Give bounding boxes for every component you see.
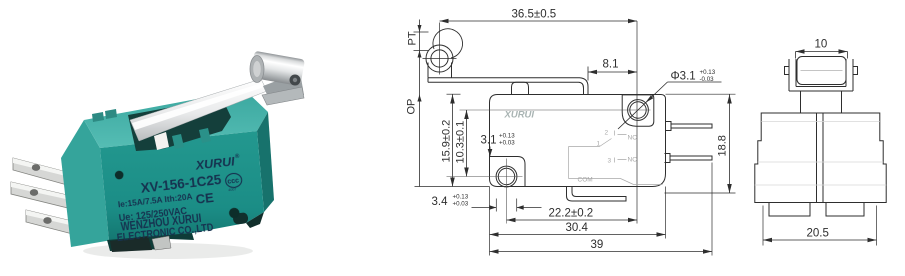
ccc logo [225, 173, 243, 193]
yoke bottom [789, 87, 853, 92]
lower-left boss [490, 157, 526, 187]
body top face [84, 90, 268, 148]
svg-text:8.1: 8.1 [603, 59, 619, 71]
printed text on front face [109, 153, 248, 244]
svg-text:+0.13: +0.13 [499, 133, 515, 140]
lever sides [801, 91, 842, 113]
svg-text:39: 39 [591, 239, 604, 251]
bottom bent terminal [567, 187, 627, 202]
roller front [797, 57, 846, 85]
svg-text:+0.13: +0.13 [700, 69, 716, 76]
roller inner [431, 50, 448, 67]
plunger [512, 82, 529, 94]
bottom extension lines [415, 163, 713, 256]
upper-right boss [622, 95, 654, 126]
rear edge bump 1 [92, 112, 104, 122]
terminal stub 1 [666, 122, 672, 131]
label 3.1 tol with down arrow [481, 133, 516, 157]
svg-text:36.5±0.5: 36.5±0.5 [512, 9, 557, 21]
lever arm (metal strip) [130, 79, 267, 141]
svg-text:-0.03: -0.03 [700, 76, 715, 83]
switch body outline [490, 95, 666, 187]
svg-text:+0.03: +0.03 [499, 140, 515, 147]
bottom terminal left [769, 203, 810, 217]
molded dot upper-left [114, 170, 123, 179]
svg-text:+0.03: +0.03 [453, 201, 469, 208]
svg-text:3.1: 3.1 [481, 135, 497, 147]
lower hole inner [498, 168, 514, 184]
lower hole v center line [506, 159, 508, 224]
top recess (dark opening) [128, 98, 231, 151]
dimension 10 [796, 39, 848, 59]
yoke left arm [789, 59, 796, 91]
dimension 20.5 [763, 206, 877, 246]
dimension 36.5±0.5 [440, 9, 638, 24]
dimension 15.9±0.2 [441, 95, 455, 187]
svg-text:ccc: ccc [227, 178, 239, 186]
hidden lines [755, 122, 886, 186]
shadow under body [83, 243, 253, 259]
svg-text:XURUI: XURUI [504, 110, 535, 121]
axle pin right [853, 67, 858, 75]
terminal blade 1 [671, 124, 712, 128]
body front face [100, 131, 264, 241]
svg-text:OP: OP [406, 99, 418, 115]
recess rib 1 [172, 134, 184, 149]
body outline with side tabs [755, 113, 886, 203]
svg-text:1: 1 [597, 141, 601, 148]
terminal stub 2 [665, 154, 671, 163]
axle pin left [785, 67, 790, 75]
roller center line [801, 70, 843, 72]
svg-text:NO: NO [628, 157, 638, 164]
terminal 2 (middle spade) [11, 182, 84, 212]
svg-text:10.3±0.1: 10.3±0.1 [455, 121, 467, 164]
bracket screw [290, 75, 301, 86]
bottom dark band [107, 233, 194, 251]
OP label and line [406, 64, 422, 187]
upper hole inner [630, 102, 646, 118]
right extension of top line [666, 93, 736, 95]
yoke right arm [846, 59, 853, 91]
roller bracket [428, 63, 452, 78]
svg-text:2: 2 [605, 130, 609, 137]
lever strip [428, 78, 588, 95]
terminal 3 (bottom spade) [26, 210, 92, 239]
PT dimension [407, 20, 429, 64]
OP extension at body top [447, 93, 461, 95]
dimension 39 [490, 239, 713, 254]
terminal blade 2 [670, 156, 712, 160]
roller bracket [263, 72, 304, 101]
dimension 8.1 [588, 59, 637, 81]
svg-text:30.4: 30.4 [566, 222, 589, 234]
svg-text:PT: PT [407, 31, 419, 45]
molded dot lower-right [229, 207, 240, 218]
free-position arc [433, 29, 463, 58]
terminal 1 (top spade) [13, 158, 78, 188]
long extension line through upper hole [636, 21, 638, 224]
svg-text:Φ3.1: Φ3.1 [671, 71, 696, 83]
bottom left dark blob [110, 236, 152, 252]
body right face [257, 112, 274, 212]
roller outer [426, 45, 453, 72]
bottom right corner dark [246, 212, 264, 228]
svg-text:10: 10 [815, 39, 828, 51]
dimension 10.3±0.1 [455, 110, 469, 177]
lower hole h center line [447, 176, 523, 178]
roller cylinder [250, 51, 305, 86]
svg-text:22.2±0.2: 22.2±0.2 [549, 208, 594, 220]
svg-text:20.5: 20.5 [807, 228, 829, 240]
internal mechanism (light) [569, 130, 663, 185]
svg-text:CE: CE [195, 190, 215, 207]
recess rib 2 [199, 128, 211, 143]
dimension 22.2±0.2 [507, 208, 638, 223]
upper hole outer [628, 100, 649, 121]
svg-text:3.4: 3.4 [432, 196, 449, 208]
svg-text:15.9±0.2: 15.9±0.2 [441, 120, 453, 163]
dimension 18.8 [665, 95, 736, 194]
lower hole outer [496, 166, 517, 187]
bottom metal foot [152, 236, 171, 250]
svg-text:+0.13: +0.13 [453, 194, 469, 201]
label dia 3.1 with leader [618, 69, 722, 129]
svg-text:NC: NC [628, 135, 638, 142]
body left face [61, 120, 109, 247]
dimension 30.4 [490, 222, 666, 237]
center seam lines [817, 113, 824, 203]
svg-text:COM: COM [578, 177, 593, 184]
dimension 3.4 [432, 194, 542, 212]
svg-text:3: 3 [608, 158, 612, 165]
rear edge bump 2 [105, 109, 117, 119]
plunger highlight [154, 132, 169, 150]
bottom terminal right [826, 203, 864, 217]
upper hole h center line [460, 109, 651, 111]
roller center cross [423, 23, 457, 75]
svg-text:18.8: 18.8 [717, 135, 729, 156]
